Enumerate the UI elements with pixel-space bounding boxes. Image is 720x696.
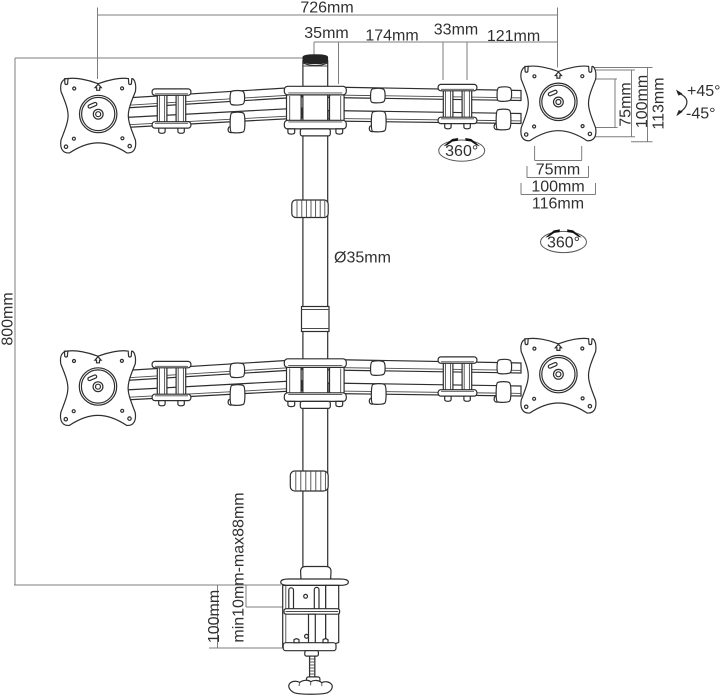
svg-text:726mm: 726mm — [300, 0, 353, 17]
dimension 33mm — [434, 22, 478, 81]
top right arm lower tube — [328, 111, 521, 124]
bottom right arm cable clip lower — [369, 384, 386, 405]
pole ring collar 1 — [292, 200, 328, 218]
360 badge top arm — [439, 138, 485, 161]
svg-text:35mm: 35mm — [304, 25, 348, 42]
bottom right arm hinge clamp — [438, 357, 477, 401]
dimension 75mm vertical right — [583, 79, 635, 128]
dimension 174mm — [365, 28, 418, 45]
dimension 121mm — [487, 28, 540, 45]
bottom right plate cable clip lower — [494, 382, 511, 403]
bottom right arm lower tube — [328, 383, 521, 396]
top right arm cable clip upper — [371, 88, 386, 103]
pole ring collar 2 — [290, 471, 328, 491]
pole tube — [303, 61, 328, 578]
clamp wing knob — [289, 680, 332, 694]
svg-text:121mm: 121mm — [487, 28, 540, 45]
top right arm cable clip lower — [369, 111, 386, 132]
top right arm upper tube — [328, 87, 521, 101]
dimension 75mm horizontal below right plate — [535, 146, 582, 179]
bottom right arm cable clip upper — [371, 361, 386, 376]
dimension 100mm vertical right — [590, 70, 651, 137]
dimension 800mm — [0, 58, 303, 585]
svg-text:min10mm-max88mm: min10mm-max88mm — [231, 492, 248, 642]
clamp screw nut — [305, 651, 319, 656]
svg-text:116mm: 116mm — [532, 196, 584, 213]
top left arm upper tube — [125, 87, 302, 108]
bottom left arm lower tube — [125, 381, 302, 401]
svg-text:100mm: 100mm — [531, 179, 584, 196]
bracket hole lower — [305, 634, 309, 638]
top left arm cable clip lower — [228, 112, 245, 133]
svg-text:174mm: 174mm — [365, 28, 418, 45]
svg-text:33mm: 33mm — [434, 22, 478, 39]
bottom right plate cable clip upper — [497, 359, 512, 374]
dimension 35mm — [304, 25, 557, 84]
bottom left vesa plate — [60, 351, 135, 426]
clamp screw column — [309, 614, 316, 643]
svg-text:75mm: 75mm — [536, 162, 580, 179]
dimension 113mm vertical right — [593, 68, 668, 142]
dimension 100mm horizontal below right plate — [527, 166, 589, 196]
tilt arrow +45/-45 — [676, 83, 720, 123]
desk clamp bracket body — [283, 585, 339, 647]
clamp rod collar — [307, 677, 320, 682]
top right arm hinge clamp — [438, 84, 477, 128]
top left arm hinge clamp — [152, 89, 191, 133]
desk clamp top plate — [281, 579, 349, 585]
svg-text:Ø35mm: Ø35mm — [334, 250, 391, 267]
bracket slot left — [289, 588, 294, 610]
bottom pole clamp — [284, 359, 346, 409]
top left arm cable clip upper — [230, 91, 245, 106]
svg-text:100mm: 100mm — [206, 590, 223, 643]
top left vesa plate — [61, 78, 136, 153]
top right vesa plate — [521, 66, 596, 141]
bottom left arm hinge clamp — [152, 361, 191, 405]
bottom left arm cable clip upper — [230, 363, 245, 378]
bottom left arm cable clip lower — [228, 385, 245, 406]
svg-text:113mm: 113mm — [651, 77, 668, 129]
bracket hole upper — [304, 594, 308, 598]
clamp threaded rod — [309, 656, 316, 677]
bottom right vesa plate — [521, 338, 596, 413]
dimension Ø35mm pole — [334, 250, 391, 267]
top right plate cable clip lower — [494, 109, 511, 130]
svg-text:+45°: +45° — [687, 83, 720, 100]
svg-text:100mm: 100mm — [634, 75, 651, 128]
top right plate cable clip upper — [497, 87, 512, 102]
svg-text:800mm: 800mm — [0, 292, 17, 345]
360 badge right plate — [541, 229, 587, 252]
dimension 726mm — [98, 0, 558, 79]
clamp bottom flange — [283, 639, 336, 651]
top left arm lower tube — [125, 108, 302, 128]
svg-text:-45°: -45° — [686, 106, 716, 123]
clamp shelf — [284, 609, 340, 615]
dimension 116mm horizontal below right plate — [521, 183, 596, 213]
bracket slot right — [314, 587, 319, 609]
bottom right arm upper tube — [328, 360, 521, 374]
top pole clamp — [284, 86, 346, 136]
dimension min10mm-max88mm — [231, 492, 293, 642]
dimension 100mm clamp height — [206, 585, 283, 648]
pole base cap — [301, 566, 331, 579]
bottom left arm upper tube — [125, 360, 302, 381]
pole top cap — [303, 55, 328, 66]
pole coupler sleeve — [302, 307, 330, 332]
